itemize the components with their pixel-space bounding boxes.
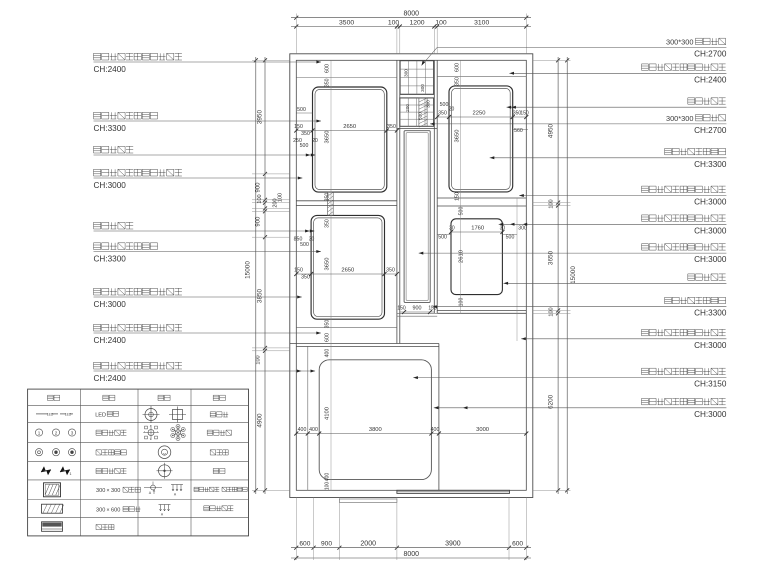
svg-text:500: 500 <box>300 242 309 248</box>
svg-text:3000: 3000 <box>476 427 489 433</box>
svg-text:300: 300 <box>404 69 409 77</box>
svg-text:300: 300 <box>426 100 431 108</box>
svg-text:3650: 3650 <box>548 250 555 265</box>
svg-text:LED: LED <box>65 412 72 416</box>
svg-text:600: 600 <box>454 63 460 72</box>
svg-text:350: 350 <box>325 193 331 202</box>
svg-text:350: 350 <box>386 268 395 274</box>
svg-text:900: 900 <box>256 182 262 193</box>
svg-text:3100: 3100 <box>474 19 489 26</box>
svg-text:2: 2 <box>55 430 58 435</box>
svg-text:2000: 2000 <box>360 540 376 547</box>
svg-text:100: 100 <box>257 194 263 203</box>
svg-text:100: 100 <box>549 307 555 316</box>
svg-text:1: 1 <box>38 430 41 435</box>
svg-text:100: 100 <box>459 298 465 307</box>
svg-text:30: 30 <box>449 226 455 232</box>
svg-text:CH:3000: CH:3000 <box>694 255 727 264</box>
svg-text:350: 350 <box>438 111 447 117</box>
svg-text:4950: 4950 <box>548 123 555 138</box>
svg-text:CH:3000: CH:3000 <box>94 181 127 190</box>
svg-text:20: 20 <box>449 107 455 113</box>
svg-text:400: 400 <box>298 427 307 433</box>
svg-text:520: 520 <box>418 112 423 120</box>
svg-text:3: 3 <box>71 430 74 435</box>
svg-text:3650: 3650 <box>325 131 331 144</box>
svg-text:400: 400 <box>431 427 440 433</box>
svg-text:500: 500 <box>459 207 465 216</box>
svg-text:×: × <box>106 508 109 514</box>
svg-text:2650: 2650 <box>343 124 356 130</box>
svg-text:200: 200 <box>405 104 410 112</box>
svg-text:600: 600 <box>325 333 331 342</box>
svg-text:3900: 3900 <box>445 540 461 547</box>
svg-text:1200: 1200 <box>409 19 424 26</box>
svg-text:3500: 3500 <box>339 19 354 26</box>
svg-text:300*300: 300*300 <box>666 114 694 123</box>
svg-text:150: 150 <box>454 192 460 201</box>
svg-text:CH:2400: CH:2400 <box>94 374 127 383</box>
svg-text:400: 400 <box>309 427 318 433</box>
svg-text:1: 1 <box>70 472 72 476</box>
svg-text:3800: 3800 <box>369 427 382 433</box>
svg-text:500: 500 <box>300 143 309 149</box>
svg-text:100: 100 <box>325 482 331 491</box>
svg-text:300: 300 <box>96 488 105 494</box>
svg-text:150: 150 <box>294 124 303 130</box>
svg-text:300: 300 <box>518 226 527 232</box>
svg-text:350: 350 <box>387 124 396 130</box>
svg-text:CH:3000: CH:3000 <box>694 226 727 235</box>
svg-text:LED: LED <box>95 412 106 418</box>
svg-text:CH:2700: CH:2700 <box>694 50 727 59</box>
svg-text:900: 900 <box>321 540 332 547</box>
svg-text:300*300: 300*300 <box>666 38 694 47</box>
svg-text:4900: 4900 <box>257 413 264 428</box>
svg-text:CH:3300: CH:3300 <box>94 124 127 133</box>
svg-text:150: 150 <box>520 111 529 117</box>
svg-text:CH:2700: CH:2700 <box>694 126 727 135</box>
svg-text:3650: 3650 <box>454 130 460 143</box>
svg-text:150: 150 <box>428 306 437 312</box>
svg-text:CH:3000: CH:3000 <box>694 410 727 419</box>
svg-text:500: 500 <box>440 102 449 108</box>
svg-text:30: 30 <box>500 226 506 232</box>
svg-text:CH:3150: CH:3150 <box>694 380 727 389</box>
svg-text:350: 350 <box>325 219 331 228</box>
svg-text:400: 400 <box>325 473 331 482</box>
svg-text:900: 900 <box>256 216 262 227</box>
svg-text:LED: LED <box>47 412 54 416</box>
svg-text:600: 600 <box>325 64 331 73</box>
svg-text:3850: 3850 <box>257 288 264 303</box>
svg-text:100: 100 <box>549 199 555 208</box>
svg-text:100: 100 <box>278 193 284 202</box>
svg-text:350: 350 <box>454 77 460 86</box>
svg-text:3650: 3650 <box>325 258 331 271</box>
svg-text:30: 30 <box>309 237 315 243</box>
svg-text:2250: 2250 <box>473 111 486 117</box>
svg-text:100: 100 <box>256 355 262 364</box>
svg-text:150: 150 <box>294 268 303 274</box>
svg-text:2610: 2610 <box>459 250 465 263</box>
svg-text:350: 350 <box>301 275 310 281</box>
svg-text:15000: 15000 <box>570 266 577 284</box>
svg-text:100: 100 <box>388 19 400 26</box>
svg-text:300: 300 <box>96 508 105 514</box>
svg-text:CH:3000: CH:3000 <box>694 198 727 207</box>
svg-text:CH:3000: CH:3000 <box>694 341 727 350</box>
svg-text:600: 600 <box>111 508 120 514</box>
svg-text:15000: 15000 <box>245 261 252 279</box>
svg-text:6200: 6200 <box>548 394 555 409</box>
svg-text:350: 350 <box>325 78 331 87</box>
svg-text:300: 300 <box>420 84 425 92</box>
svg-text:560: 560 <box>514 128 523 134</box>
svg-text:900: 900 <box>413 306 422 312</box>
svg-text:500: 500 <box>297 107 306 113</box>
svg-text:CH:2400: CH:2400 <box>694 75 727 84</box>
svg-text:4100: 4100 <box>325 407 331 420</box>
svg-text:×: × <box>106 488 109 494</box>
svg-text:500: 500 <box>506 235 515 241</box>
svg-text:300: 300 <box>111 488 120 494</box>
svg-text:8000: 8000 <box>404 11 420 18</box>
svg-text:100: 100 <box>435 19 447 26</box>
svg-text:600: 600 <box>299 540 310 547</box>
svg-text:CH:3300: CH:3300 <box>694 160 727 169</box>
svg-text:350: 350 <box>301 131 310 137</box>
svg-text:400: 400 <box>325 349 331 358</box>
svg-text:CH:2400: CH:2400 <box>94 65 127 74</box>
svg-text:350: 350 <box>325 320 331 329</box>
svg-text:500: 500 <box>438 235 447 241</box>
svg-text:CH:3300: CH:3300 <box>694 309 727 318</box>
svg-text:CH:2400: CH:2400 <box>94 336 127 345</box>
svg-text:600: 600 <box>512 540 523 547</box>
svg-text:8000: 8000 <box>404 551 420 558</box>
svg-text:20: 20 <box>312 138 318 144</box>
svg-text:CH:3300: CH:3300 <box>94 255 127 264</box>
svg-text:3950: 3950 <box>257 110 264 125</box>
svg-text:CH:3000: CH:3000 <box>94 300 127 309</box>
svg-text:150: 150 <box>397 306 406 312</box>
svg-text:2650: 2650 <box>341 268 354 274</box>
svg-text:1760: 1760 <box>471 226 484 232</box>
